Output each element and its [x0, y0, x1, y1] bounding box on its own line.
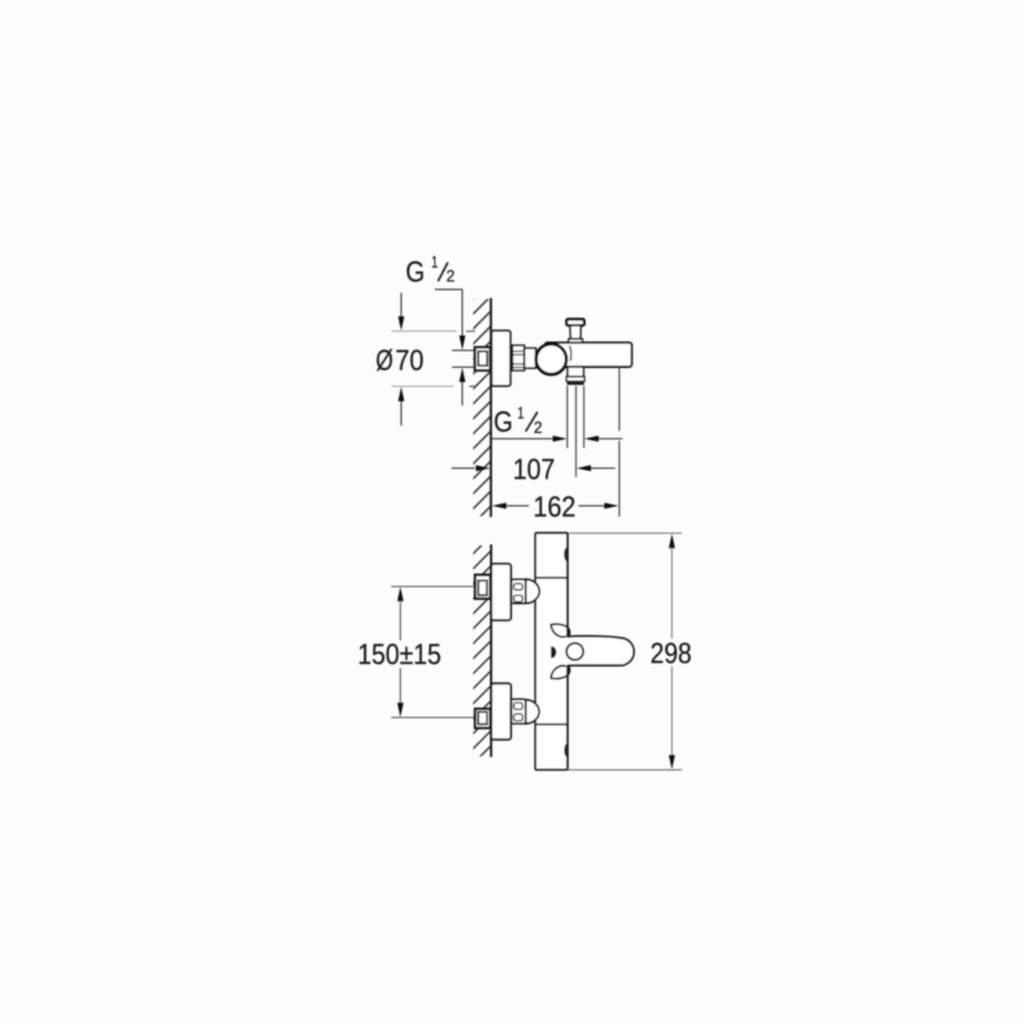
- upper escutcheon: [491, 564, 511, 620]
- 298 top extension line: [568, 532, 682, 534]
- dia 70 lower extension line: [392, 385, 455, 387]
- svg-text:1: 1: [517, 405, 524, 423]
- upper dome cap: [526, 579, 540, 603]
- extension line spout end lower part: [618, 441, 620, 517]
- wall hatch: [473, 546, 491, 757]
- wall line: [490, 545, 492, 758]
- svg-text:1: 1: [431, 254, 438, 272]
- wall flange escutcheon: [492, 331, 511, 386]
- thermostat handle circle: [536, 344, 566, 374]
- svg-text:Ø: Ø: [376, 345, 393, 377]
- dia 70 upper extension line: [392, 330, 457, 332]
- supply pipe lower wall line: [452, 366, 475, 368]
- wall line: [490, 298, 492, 517]
- G 1/2 leader horizontal: [435, 288, 463, 290]
- upper connector nut: [511, 580, 525, 604]
- svg-text:298: 298: [650, 638, 691, 670]
- 162 dim left arrow: [492, 503, 506, 509]
- extension line outlet left edge: [566, 386, 568, 448]
- 298 dim line with arrows: [669, 534, 675, 548]
- screw notch upper: [564, 547, 567, 562]
- diverter knob cap: [567, 319, 585, 325]
- lower connector nut: [511, 699, 525, 723]
- union nut chamfer rings: [512, 350, 524, 352]
- handle arc detail: [570, 346, 572, 361]
- G 1/2 leader up arrow: [461, 381, 463, 405]
- extension line outlet centre: [575, 386, 577, 478]
- wall hatch: [473, 299, 491, 516]
- 150+-15 dim line with arrows: [397, 587, 403, 601]
- body top cap divider: [535, 577, 567, 579]
- G 1/2 dim left arrow: [492, 438, 554, 440]
- diverter knob neck: [570, 325, 581, 339]
- screw notch lower: [564, 743, 567, 757]
- 162 dim right arrow: [579, 505, 605, 507]
- 107 dim left arrow: [452, 467, 476, 469]
- lower escutcheon: [491, 684, 511, 740]
- svg-text:G: G: [494, 407, 513, 439]
- square union nut behind wall: [475, 347, 491, 371]
- connector piece: [524, 348, 536, 368]
- lower square nut: [475, 708, 491, 728]
- G 1/2 dim right arrow: [598, 438, 623, 440]
- spout fill: [565, 637, 634, 665]
- dia 70 down arrow: [400, 293, 402, 318]
- supply pipe upper wall line: [452, 349, 475, 351]
- upper pipe/ext line: [391, 586, 475, 588]
- extension line spout end upper part: [618, 368, 620, 431]
- shower outlet stub: [568, 367, 584, 377]
- shower outlet dark nipple: [567, 381, 584, 385]
- body right edge redrawn: [566, 533, 568, 770]
- extension line outlet right edge: [583, 386, 585, 448]
- svg-text:70: 70: [395, 345, 424, 377]
- body / spout bar: [545, 343, 632, 367]
- lower pipe/ext line: [391, 717, 475, 719]
- upper square nut: [475, 574, 491, 599]
- 298 bottom extension line: [568, 769, 682, 771]
- diverter knob collar: [569, 339, 583, 343]
- dia 70 up arrow: [400, 401, 402, 426]
- 107 dim right arrow: [590, 467, 615, 469]
- svg-text:G: G: [406, 257, 425, 289]
- diverter circle: [567, 643, 584, 660]
- lower leaf: [551, 666, 570, 679]
- body bottom cap divider: [535, 723, 567, 725]
- body bar: [535, 533, 567, 770]
- svg-text:107: 107: [513, 454, 555, 486]
- svg-text:2: 2: [446, 268, 455, 286]
- svg-text:162: 162: [533, 492, 576, 524]
- dark D blob: [551, 646, 557, 658]
- lower dome cap: [526, 700, 540, 724]
- spout outline: [568, 636, 634, 665]
- shower outlet collar: [567, 377, 585, 382]
- svg-text:150±15: 150±15: [358, 639, 442, 671]
- union nut body: [512, 345, 524, 370]
- upper leaf: [551, 624, 570, 637]
- svg-text:2: 2: [534, 419, 543, 437]
- G 1/2 leader vertical with down arrow: [461, 289, 463, 336]
